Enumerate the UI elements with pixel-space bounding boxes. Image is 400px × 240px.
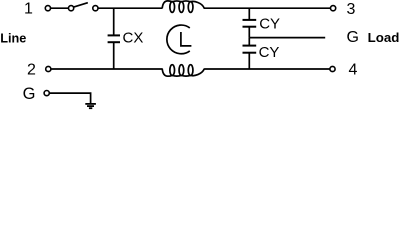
wire (G terminal to ground): [50, 93, 91, 103]
inductor L bottom winding (mirrored copy of top): [162, 65, 204, 77]
inductor L bottom winding loop 3: [188, 65, 193, 76]
switch S1 pole circle: [45, 6, 50, 11]
wire (switch to top coil, with CX tap): [98, 7, 162, 9]
wire (mid rail to CY2): [248, 38, 250, 46]
svg-text:Load: Load: [368, 30, 400, 45]
svg-text:CX: CX: [123, 30, 144, 47]
ground symbol bar 1: [85, 103, 96, 105]
svg-text:CY: CY: [259, 15, 280, 32]
svg-text:3: 3: [347, 1, 356, 18]
label L: [181, 32, 192, 46]
inductor L top winding loop 1: [170, 2, 175, 13]
ground symbol bar 2: [87, 105, 94, 107]
switch S1 blade: [74, 3, 88, 7]
inductor L bottom winding loop 2: [179, 65, 184, 76]
node CX junction vertical wire: [113, 8, 115, 35]
wire (terminal 1 to switch): [51, 7, 69, 9]
wire (CX to bottom rail): [113, 43, 115, 69]
switch S1 throw circle: [93, 6, 98, 11]
svg-text:1: 1: [24, 0, 33, 17]
switch S1 hinge circle: [69, 6, 74, 11]
inductor L top winding loop 3: [188, 2, 193, 13]
inductor L bottom winding loop 1: [170, 65, 175, 76]
terminal 2 circle: [46, 66, 51, 71]
capacitor CY2 top plate: [243, 45, 257, 47]
wire (bottom coil to terminal 4): [204, 68, 330, 70]
svg-text:CY: CY: [259, 44, 280, 61]
inductor L core circle: [167, 25, 190, 54]
svg-text:2: 2: [27, 62, 36, 79]
capacitor CX bottom plate: [108, 41, 120, 43]
wire mid ground rail: [249, 37, 325, 39]
wire (CY1 to mid ground rail): [248, 27, 250, 37]
capacitor CY1 bottom plate: [243, 26, 257, 28]
capacitor CY2 bottom plate: [243, 52, 257, 54]
ground symbol bar 3: [89, 107, 92, 109]
terminal 3 circle: [331, 6, 336, 11]
inductor L top winding loop 2: [179, 2, 184, 13]
capacitor CY1 top plate: [243, 19, 257, 21]
svg-text:4: 4: [348, 62, 357, 79]
wire (top coil to terminal 3, with CY tap): [204, 7, 331, 9]
svg-text:Line: Line: [0, 32, 26, 46]
wire (terminal 2 to bottom coil): [51, 68, 163, 70]
capacitor CX top plate: [108, 34, 120, 36]
node CY1 junction vertical wire: [248, 8, 250, 19]
wire (CY2 to bottom rail): [248, 53, 250, 69]
svg-text:G: G: [346, 29, 358, 46]
inductor L top winding: [162, 1, 204, 8]
terminal G circle: [44, 91, 49, 96]
terminal 4 circle: [330, 66, 335, 71]
svg-text:G: G: [23, 85, 36, 103]
